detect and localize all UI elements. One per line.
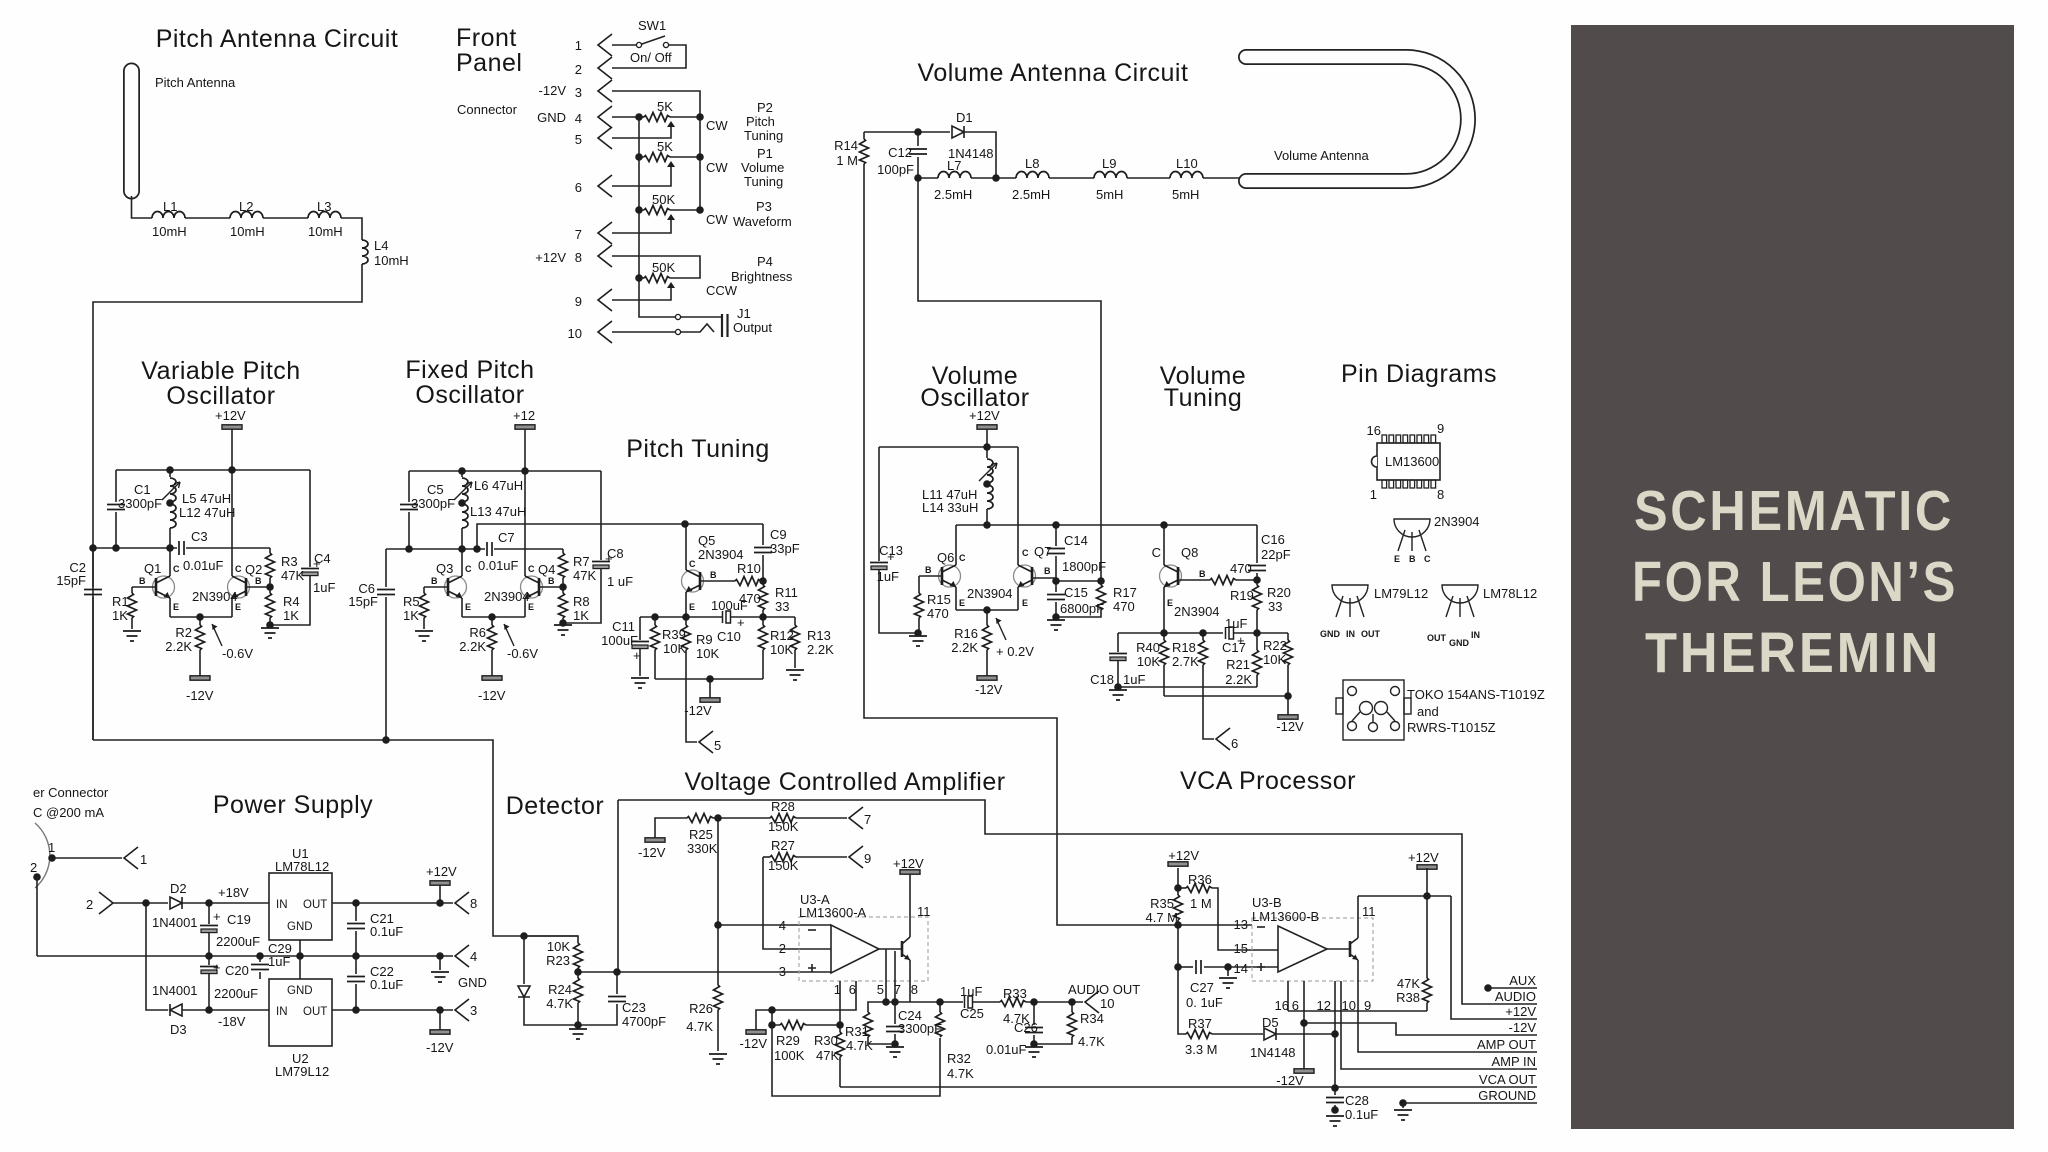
- svg-text:C27: C27: [1190, 980, 1214, 995]
- pin 9 arrow: [598, 289, 612, 311]
- resistor R24: [577, 972, 579, 978]
- diode D5: [1264, 1028, 1276, 1040]
- svg-text:6: 6: [575, 180, 582, 195]
- resistor R33: [1000, 998, 1026, 1007]
- svg-text:15pF: 15pF: [56, 573, 86, 588]
- wire D2 to U1: [182, 902, 269, 904]
- svg-text:er Connector: er Connector: [33, 785, 109, 800]
- svg-text:4.7K: 4.7K: [947, 1066, 974, 1081]
- svg-text:U3-B: U3-B: [1252, 895, 1282, 910]
- svg-text:C7: C7: [498, 530, 515, 545]
- svg-text:2.2K: 2.2K: [165, 639, 192, 654]
- pin 8 emitter stub: [909, 960, 911, 1002]
- -12V bar R6: [482, 676, 502, 680]
- resistor R35: [1177, 888, 1179, 895]
- svg-text:R1: R1: [112, 594, 129, 609]
- mid rail: [956, 524, 1257, 526]
- svg-text:150K: 150K: [768, 819, 799, 834]
- top rail: [879, 446, 1018, 448]
- svg-text:AUX: AUX: [1509, 973, 1536, 988]
- svg-text:1uF: 1uF: [960, 984, 982, 999]
- svg-text:Pitch Antenna: Pitch Antenna: [155, 75, 236, 90]
- pin 5 arrow: [699, 731, 713, 753]
- resistor R18: [1202, 633, 1204, 640]
- -12V bar R16: [977, 676, 997, 680]
- volume antenna tube: [1246, 57, 1468, 181]
- svg-text:E: E: [465, 602, 471, 612]
- svg-text:4: 4: [575, 111, 582, 126]
- ground R26: [709, 1054, 727, 1064]
- ground symbol pin4: [439, 956, 441, 970]
- resistor R36: [1178, 887, 1186, 889]
- pot P3 50K: [644, 206, 670, 215]
- pot P1 5K: [644, 153, 670, 162]
- svg-text:33: 33: [775, 599, 789, 614]
- svg-text:E: E: [959, 598, 965, 608]
- wire R27 to pin2: [763, 857, 831, 949]
- bottom rail -12V: [655, 678, 763, 680]
- svg-text:3300pF: 3300pF: [898, 1021, 942, 1036]
- wire C12 node down to volume oscillator: [918, 178, 1101, 581]
- svg-text:L3: L3: [317, 199, 331, 214]
- Q1 emitter wire: [169, 598, 171, 617]
- svg-text:Power Supply: Power Supply: [213, 791, 373, 819]
- svg-text:9: 9: [1364, 998, 1371, 1013]
- svg-text:11: 11: [1362, 904, 1376, 919]
- svg-text:0.01uF: 0.01uF: [478, 558, 519, 573]
- -12V bar power supply: [439, 1010, 441, 1030]
- svg-text:1 M: 1 M: [836, 153, 858, 168]
- svg-text:2.5mH: 2.5mH: [1012, 187, 1050, 202]
- svg-text:1: 1: [834, 982, 841, 997]
- svg-text:0.01uF: 0.01uF: [183, 558, 224, 573]
- +12V power bar: [977, 425, 997, 429]
- svg-text:2N3904: 2N3904: [1434, 514, 1480, 529]
- svg-text:+12: +12: [513, 408, 535, 423]
- svg-text:10: 10: [1100, 996, 1114, 1011]
- svg-text:Q6: Q6: [937, 550, 954, 565]
- svg-text:E: E: [1167, 598, 1173, 608]
- Q6 emitter wire: [955, 587, 957, 610]
- svg-text:+: +: [633, 648, 641, 663]
- pin 7 arrow: [849, 807, 863, 829]
- svg-text:Pitch Tuning: Pitch Tuning: [626, 435, 770, 463]
- wire antenna to L1: [132, 196, 153, 218]
- svg-text:-12V: -12V: [1276, 719, 1304, 734]
- svg-text:VCA Processor: VCA Processor: [1180, 767, 1356, 795]
- capacitor C5: [400, 505, 418, 510]
- svg-text:6: 6: [849, 982, 856, 997]
- capacitor C14: [1055, 525, 1057, 546]
- resistor R30: [839, 1025, 841, 1032]
- wire L4 down to variable pitch oscillator: [93, 264, 362, 740]
- +12V bar power supply: [430, 881, 450, 885]
- junction dots front panel: [635, 113, 643, 121]
- svg-text:10K: 10K: [770, 642, 793, 657]
- opamp U3-B triangle: [1278, 926, 1327, 972]
- svg-text:+: +: [213, 960, 221, 975]
- svg-text:0.01uF: 0.01uF: [986, 1042, 1027, 1057]
- resistor R27: [763, 856, 770, 858]
- Q7 emitter wire: [1017, 587, 1019, 610]
- pin 5/7 stubs from output: [886, 949, 895, 1002]
- -0.6V callout arrow: [212, 624, 222, 646]
- svg-text:7: 7: [864, 812, 871, 827]
- svg-text:Q7: Q7: [1034, 544, 1051, 559]
- wire bus to jack J1: [639, 278, 722, 317]
- svg-text:-0.6V: -0.6V: [507, 646, 538, 661]
- svg-text:R13: R13: [807, 628, 831, 643]
- svg-text:2: 2: [575, 62, 582, 77]
- +12V power bar: [222, 425, 242, 429]
- svg-text:5K: 5K: [657, 99, 673, 114]
- svg-text:R40: R40: [1136, 640, 1160, 655]
- +12V bar U3-B right: [1417, 865, 1437, 869]
- capacitor C23: [616, 972, 618, 994]
- inductor L1: [152, 212, 185, 219]
- svg-text:L9: L9: [1102, 156, 1116, 171]
- node rail C7: [386, 548, 485, 550]
- svg-text:CW: CW: [706, 212, 728, 227]
- svg-text:9: 9: [1437, 421, 1444, 436]
- variable inductor L11: [986, 447, 988, 458]
- svg-text:Volume: Volume: [741, 160, 784, 175]
- svg-text:R34: R34: [1080, 1011, 1104, 1026]
- GROUND node: [1399, 1099, 1407, 1107]
- svg-text:R12: R12: [770, 628, 794, 643]
- svg-text:6: 6: [1231, 736, 1238, 751]
- svg-text:C20: C20: [225, 963, 249, 978]
- pin 2 arrow: [598, 57, 612, 79]
- resistor R25: [687, 814, 713, 823]
- svg-text:1K: 1K: [573, 608, 589, 623]
- inductor L8: [1016, 172, 1049, 179]
- svg-text:Detector: Detector: [506, 792, 604, 820]
- svg-text:R30: R30: [814, 1033, 838, 1048]
- svg-text:1K: 1K: [403, 608, 419, 623]
- svg-text:C16: C16: [1261, 532, 1285, 547]
- svg-text:-12V: -12V: [684, 703, 712, 718]
- Q1 base wire: [132, 586, 156, 588]
- capacitor C20: [208, 956, 210, 965]
- ground R13: [786, 670, 804, 680]
- svg-text:B: B: [710, 570, 717, 580]
- svg-text:100pF: 100pF: [877, 162, 914, 177]
- svg-text:1N4148: 1N4148: [1250, 1045, 1296, 1060]
- svg-text:SCHEMATIC: SCHEMATIC: [1634, 479, 1954, 543]
- emitter rail: [956, 609, 1018, 611]
- svg-text:33: 33: [1268, 599, 1282, 614]
- svg-text:Pitch: Pitch: [746, 114, 775, 129]
- svg-text:0. 1uF: 0. 1uF: [1186, 995, 1223, 1010]
- svg-text:47K: 47K: [573, 568, 596, 583]
- pin 11 wire: [909, 874, 911, 937]
- resistor R19: [1210, 576, 1236, 585]
- svg-text:R11: R11: [775, 585, 798, 600]
- resistor R5: [423, 587, 425, 593]
- pin 8 arrow: [455, 892, 469, 914]
- svg-text:-12V: -12V: [478, 688, 506, 703]
- junction dots power supply: [142, 899, 150, 907]
- svg-text:R38: R38: [1396, 990, 1420, 1005]
- capacitor C26: [1033, 1002, 1035, 1025]
- Q4 emitter wire: [524, 598, 526, 617]
- wire L1-L2: [185, 217, 230, 219]
- IC LM13600 DIP: [1372, 435, 1441, 488]
- pin 8 arrow: [598, 245, 612, 267]
- U1 GND stub: [299, 940, 301, 956]
- svg-text:R7: R7: [573, 554, 590, 569]
- svg-text:1K: 1K: [283, 608, 299, 623]
- svg-text:R19: R19: [1230, 588, 1254, 603]
- svg-text:D3: D3: [170, 1022, 187, 1037]
- inductor L4: [362, 240, 368, 264]
- right leg / Q7 collector: [1017, 447, 1019, 565]
- resistor R32: [939, 1002, 941, 1012]
- front panel pot bus: [639, 117, 644, 278]
- svg-text:1: 1: [575, 38, 582, 53]
- svg-text:5mH: 5mH: [1172, 187, 1199, 202]
- ground R5: [415, 631, 433, 641]
- svg-text:B: B: [548, 576, 555, 586]
- svg-text:R17: R17: [1113, 585, 1137, 600]
- svg-text:R24: R24: [548, 982, 572, 997]
- svg-text:C9: C9: [770, 527, 787, 542]
- svg-text:R14: R14: [834, 138, 858, 153]
- svg-text:Tuning: Tuning: [744, 128, 783, 143]
- svg-text:AUDIO: AUDIO: [1495, 989, 1536, 1004]
- svg-text:Panel: Panel: [456, 49, 522, 77]
- svg-text:33pF: 33pF: [770, 541, 800, 556]
- svg-text:10K: 10K: [547, 939, 570, 954]
- variable inductor L5: [169, 470, 171, 477]
- svg-text:OUT: OUT: [303, 899, 327, 911]
- svg-text:2.5mH: 2.5mH: [934, 187, 972, 202]
- svg-text:L1: L1: [163, 199, 177, 214]
- Q7 base wire: [1032, 578, 1056, 581]
- svg-text:1: 1: [140, 852, 147, 867]
- svg-text:1N4001: 1N4001: [152, 983, 198, 998]
- transistor Q6: [939, 565, 961, 587]
- pin 10 arrow: [598, 321, 612, 343]
- svg-text:LM78L12: LM78L12: [275, 859, 329, 874]
- svg-text:+: +: [605, 551, 613, 566]
- svg-text:10mH: 10mH: [152, 224, 187, 239]
- svg-text:4.7 M: 4.7 M: [1145, 910, 1178, 925]
- svg-text:10mH: 10mH: [308, 224, 343, 239]
- svg-text:-12V: -12V: [638, 845, 666, 860]
- capacitor C16: [1256, 525, 1258, 563]
- node rail below opamp: [886, 1001, 963, 1003]
- resistor R34: [1071, 1002, 1073, 1012]
- Q4 base wire: [539, 586, 563, 588]
- svg-text:470: 470: [1230, 561, 1252, 576]
- wire to D3: [146, 903, 168, 1010]
- wire D1 to L7/L8 node: [964, 132, 996, 178]
- svg-text:+: +: [887, 549, 895, 564]
- cap C12: [917, 132, 919, 146]
- wire P4 wiper to pin9: [612, 288, 671, 300]
- wire L2-L3: [263, 217, 308, 219]
- -12V stem volume tuning: [1287, 696, 1289, 715]
- capacitor C22: [355, 956, 357, 974]
- svg-text:Tuning: Tuning: [1164, 384, 1243, 412]
- svg-text:GND: GND: [458, 975, 487, 990]
- svg-text:11: 11: [917, 904, 931, 919]
- resistor R22: [1287, 633, 1289, 640]
- svg-text:3: 3: [470, 1003, 477, 1018]
- svg-text:C: C: [959, 553, 966, 563]
- svg-text:Volume Antenna Circuit: Volume Antenna Circuit: [918, 59, 1189, 87]
- capacitor C1: [107, 505, 125, 510]
- svg-text:IN: IN: [1471, 630, 1480, 640]
- Q5 collector wire: [685, 524, 687, 570]
- svg-text:C: C: [173, 564, 180, 574]
- ground R8: [554, 625, 572, 635]
- svg-text:E: E: [528, 602, 534, 612]
- wire +12 stem and Q4 collector: [524, 429, 526, 576]
- svg-text:GROUND: GROUND: [1478, 1088, 1536, 1103]
- svg-text:Fixed Pitch: Fixed Pitch: [405, 356, 534, 384]
- svg-text:LM13600-B: LM13600-B: [1252, 909, 1319, 924]
- svg-text:FOR LEON’S: FOR LEON’S: [1632, 550, 1958, 614]
- svg-text:C12: C12: [888, 145, 912, 160]
- feedback line to AUDIO: [617, 800, 619, 972]
- emitter rail: [170, 616, 232, 618]
- svg-text:LM13600-A: LM13600-A: [799, 905, 867, 920]
- svg-text:CW: CW: [706, 118, 728, 133]
- Q2 base wire: [246, 586, 270, 588]
- svg-text:B: B: [1409, 554, 1416, 564]
- sidebar panel: [1571, 25, 2014, 1129]
- wire down to R37: [1178, 967, 1186, 1034]
- svg-text:C: C: [465, 564, 472, 574]
- capacitor C3: [179, 541, 184, 555]
- Q3 base wire: [424, 586, 448, 588]
- svg-text:IN: IN: [1346, 629, 1355, 639]
- power connector shell: [35, 823, 50, 888]
- svg-text:Oscillator: Oscillator: [415, 381, 524, 409]
- detector output line to U3-A pin3: [578, 971, 831, 973]
- R29 node to R32 bottom line: [772, 1025, 940, 1096]
- svg-text:and: and: [1417, 704, 1439, 719]
- svg-text:On/ Off: On/ Off: [630, 50, 672, 65]
- resistor R28: [770, 814, 796, 823]
- svg-text:470: 470: [1113, 599, 1135, 614]
- svg-text:+12V: +12V: [535, 250, 566, 265]
- resistor R17: [1100, 581, 1102, 585]
- wire +12V stem and Q2 collector: [231, 429, 233, 576]
- resistor R6: [491, 617, 493, 625]
- Q8 emitter wire: [1163, 587, 1165, 633]
- ground C27: [1227, 967, 1229, 976]
- svg-text:P1: P1: [757, 146, 773, 161]
- svg-text:Volume Antenna: Volume Antenna: [1274, 148, 1369, 163]
- svg-text:9: 9: [864, 851, 871, 866]
- svg-text:Connector: Connector: [457, 102, 518, 117]
- svg-text:9: 9: [575, 294, 582, 309]
- resistor R26: [717, 925, 719, 985]
- svg-text:16: 16: [1275, 998, 1289, 1013]
- Q3 emitter wire: [461, 598, 463, 617]
- svg-text:GND: GND: [287, 921, 313, 933]
- svg-text:2200uF: 2200uF: [216, 934, 260, 949]
- resistor R8: [562, 587, 564, 593]
- svg-text:2: 2: [86, 897, 93, 912]
- junction dots VCA processor: [1174, 884, 1182, 892]
- wire C18 to R21: [1118, 686, 1257, 688]
- svg-text:B: B: [925, 565, 932, 575]
- regulator package LM79L12: [1332, 585, 1368, 617]
- svg-text:CCW: CCW: [706, 283, 738, 298]
- svg-text:E: E: [1022, 598, 1028, 608]
- svg-text:LM13600: LM13600: [1385, 454, 1439, 469]
- top rail: [116, 469, 310, 471]
- capacitor C19: [208, 903, 210, 924]
- svg-text:Q3: Q3: [436, 561, 453, 576]
- svg-text:1: 1: [48, 840, 55, 855]
- svg-text:1uF: 1uF: [1225, 616, 1247, 631]
- svg-text:4: 4: [470, 949, 477, 964]
- svg-text:B: B: [1199, 569, 1206, 579]
- svg-text:1uF: 1uF: [877, 569, 899, 584]
- svg-text:5: 5: [877, 982, 884, 997]
- capacitor C8: [600, 471, 602, 560]
- svg-text:E: E: [173, 602, 179, 612]
- resistor R2: [199, 617, 201, 625]
- junction dots volume antenna: [914, 128, 922, 136]
- svg-text:Q8: Q8: [1181, 545, 1198, 560]
- svg-text:47K: 47K: [816, 1048, 839, 1063]
- capacitor C11: [639, 617, 641, 640]
- svg-text:E: E: [689, 602, 695, 612]
- capacitor C17: [1226, 627, 1234, 639]
- svg-text:R35: R35: [1150, 896, 1174, 911]
- svg-text:7: 7: [894, 982, 901, 997]
- svg-text:R2: R2: [175, 625, 192, 640]
- svg-text:C: C: [1152, 545, 1161, 560]
- resistor R12: [762, 617, 764, 625]
- pin 10 arrow audio out: [1085, 991, 1099, 1013]
- pin 4 arrow: [455, 945, 469, 967]
- svg-text:C23: C23: [622, 1000, 646, 1015]
- svg-text:R15: R15: [927, 592, 951, 607]
- transistor Q4: [521, 576, 543, 598]
- inductor L12: [170, 504, 176, 528]
- svg-text:5mH: 5mH: [1096, 187, 1123, 202]
- svg-text:TOKO 154ANS-T1019Z: TOKO 154ANS-T1019Z: [1407, 687, 1545, 702]
- transistor package 2N3904: [1394, 519, 1430, 551]
- pitch antenna: [123, 71, 140, 191]
- junction dots variable pitch osc: [166, 466, 174, 474]
- Q8 base wire: [1178, 579, 1210, 581]
- diode D3: [170, 1004, 182, 1016]
- svg-text:13: 13: [1234, 917, 1248, 932]
- capacitor C18: [1117, 633, 1119, 652]
- capacitor C4: [309, 470, 311, 567]
- +0.2V callout arrow: [996, 618, 1006, 640]
- svg-text:R23: R23: [546, 953, 570, 968]
- junction dots fixed pitch osc: [458, 467, 466, 475]
- node rail: [640, 616, 722, 618]
- oscillator bottom feedback rail: [93, 740, 578, 936]
- svg-text:D5: D5: [1262, 1015, 1279, 1030]
- wire R36 to pin15: [1212, 888, 1278, 950]
- svg-text:R26: R26: [689, 1001, 713, 1016]
- +12V bar VCA output: [900, 870, 920, 874]
- svg-text:100uF: 100uF: [711, 598, 748, 613]
- svg-text:R10: R10: [737, 561, 761, 576]
